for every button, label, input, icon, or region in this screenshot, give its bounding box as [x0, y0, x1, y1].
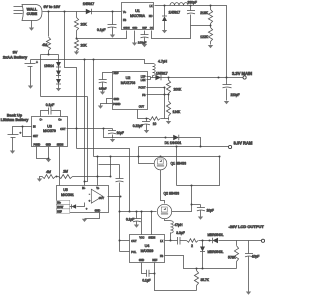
- node q2-cap: [191, 204, 193, 206]
- node 2M-157: [110, 176, 112, 178]
- svg-text:MAX931: MAX931: [61, 193, 74, 197]
- wire U4 OUT stub: [120, 240, 130, 242]
- svg-text:PGND: PGND: [33, 145, 40, 147]
- op-amp U5 MAX931 box: [57, 186, 109, 213]
- capacitor 0.1uF U4: [126, 212, 141, 228]
- svg-text:1N5817: 1N5817: [156, 71, 168, 75]
- node rail-4M: [48, 11, 50, 13]
- capacitor 10uF sub: [108, 129, 124, 143]
- svg-text:IN: IN: [33, 126, 36, 129]
- battery lithium: [8, 127, 32, 154]
- label backup battery: [1, 113, 30, 122]
- node shdn-u4: [151, 211, 153, 213]
- svg-text:MBR0540L: MBR0540L: [208, 233, 224, 237]
- svg-text:C-: C-: [40, 119, 43, 122]
- diode MBR0540L series: [208, 233, 224, 243]
- node 20K tap: [76, 38, 78, 40]
- node main-200K: [168, 77, 170, 79]
- diode 1N5817 input: [83, 2, 95, 14]
- node out-d2: [202, 240, 204, 242]
- node q2-drain-mid: [191, 185, 193, 187]
- svg-text:OUT: OUT: [99, 197, 105, 200]
- svg-text:FB: FB: [142, 94, 146, 97]
- label battery: [3, 50, 28, 60]
- node batt-d: [93, 59, 95, 61]
- node vcc-row: [119, 211, 121, 213]
- wire batt drop B: [84, 60, 86, 186]
- resistor 4M lower: [37, 170, 56, 182]
- svg-text:HYST: HYST: [57, 207, 64, 209]
- node u4out: [119, 240, 121, 242]
- svg-text:REF: REF: [142, 28, 147, 30]
- wire U2 OUT comp row: [138, 110, 172, 127]
- wire ram-gate link: [139, 147, 155, 164]
- inductor buck: [170, 3, 188, 6]
- svg-text:POL: POL: [131, 251, 137, 254]
- svg-text:2: 2: [191, 244, 193, 248]
- wire ff row: [191, 25, 211, 27]
- svg-text:OUT: OUT: [131, 240, 137, 243]
- svg-text:3.3V MAIN: 3.3V MAIN: [232, 71, 252, 76]
- svg-text:LX: LX: [149, 5, 152, 8]
- svg-text:10: 10: [153, 122, 157, 126]
- wire U4 POL stub: [120, 251, 130, 253]
- wire U3 SHDN drop: [59, 147, 61, 186]
- capacitor 0.22uF: [133, 118, 150, 134]
- op-amp U2 MAX1703 box: [113, 72, 148, 110]
- svg-text:4.7µH: 4.7µH: [158, 59, 168, 63]
- capacitor 0.1uF U3: [41, 103, 61, 117]
- wire batt drop D: [93, 60, 95, 157]
- svg-text:REF: REF: [114, 72, 119, 75]
- svg-text:GND: GND: [46, 145, 51, 147]
- svg-text:MAX629: MAX629: [141, 249, 154, 253]
- diode MBR0540L shunt: [200, 241, 224, 269]
- capacitor 0.1uF U4ref: [142, 263, 155, 283]
- op-amp U1 MAX758A box: [122, 3, 154, 30]
- capacitor 220uF: [223, 78, 240, 105]
- wall cube plug prongs: [14, 7, 24, 14]
- svg-text:WALL: WALL: [27, 7, 38, 11]
- node 157-2M: [110, 156, 112, 158]
- U5 pin rows: [56, 200, 70, 213]
- svg-text:FB: FB: [160, 255, 164, 258]
- op-amp U4 MAX629 box: [130, 235, 165, 263]
- svg-text:OUT: OUT: [60, 128, 66, 131]
- wire cap row: [192, 204, 201, 206]
- svg-text:V+: V+: [123, 11, 127, 14]
- wire U5 V+ riser: [97, 156, 99, 186]
- svg-text:REF: REF: [152, 259, 157, 262]
- wire RAM row: [139, 146, 230, 148]
- terminal 3.3V MAIN: [232, 71, 252, 79]
- wire tap to SHDN: [77, 31, 127, 39]
- svg-text:578K: 578K: [228, 255, 236, 259]
- svg-text:0.1µF: 0.1µF: [126, 218, 134, 222]
- capacitor 3.3uF: [176, 231, 185, 245]
- capacitor 330pF: [187, 5, 195, 26]
- wire LX row out: [165, 240, 178, 242]
- wire q1 drop: [176, 147, 178, 186]
- U3 pin labels: [33, 119, 66, 147]
- transistor Q1 Si9433: [154, 157, 186, 170]
- svg-text:MAX679: MAX679: [43, 129, 56, 133]
- svg-text:Q2 Si9433: Q2 Si9433: [164, 192, 180, 196]
- capacitor 10uF out: [245, 241, 259, 295]
- U2 LXP LXN stubs: [147, 77, 156, 80]
- wire VCC riser: [141, 211, 143, 235]
- svg-text:330pF: 330pF: [188, 1, 197, 5]
- svg-text:1N914: 1N914: [44, 64, 54, 68]
- svg-text:FB: FB: [123, 19, 127, 22]
- svg-text:-26V LCD OUTPUT: -26V LCD OUTPUT: [229, 224, 265, 229]
- wire battery rail: [31, 60, 153, 64]
- U2 pin labels: [113, 72, 146, 108]
- U1 pin labels: [123, 5, 153, 30]
- resistor 124K: [166, 95, 181, 119]
- svg-text:+: +: [20, 131, 22, 135]
- svg-text:10µF: 10µF: [117, 131, 124, 135]
- svg-text:U4: U4: [145, 244, 150, 248]
- svg-text:218K: 218K: [200, 11, 209, 15]
- wire q2 source: [165, 219, 171, 221]
- svg-text:2xAA Battery: 2xAA Battery: [3, 54, 28, 59]
- wire U5OUT drop: [119, 197, 121, 252]
- svg-text:10µF: 10µF: [252, 255, 259, 259]
- U4 pin labels: [131, 237, 163, 263]
- wire out rail: [219, 240, 263, 242]
- resistor 2M: [56, 169, 111, 178]
- U3 gnd wires: [37, 147, 52, 163]
- inductor 47uH: [171, 221, 184, 241]
- svg-text:POUT: POUT: [139, 86, 146, 89]
- svg-text:NC: NC: [149, 15, 153, 18]
- wire vin drop: [65, 12, 77, 149]
- node rail-cap: [112, 11, 114, 13]
- svg-text:122K: 122K: [200, 35, 209, 39]
- wire LX row: [155, 6, 227, 78]
- node rail-vin-drop: [64, 11, 66, 13]
- capacitor comp U5: [116, 165, 124, 197]
- node 4M-2M: [56, 176, 58, 178]
- svg-text:SHDN: SHDN: [123, 28, 130, 30]
- resistor 122K: [200, 26, 213, 49]
- op-amp U3 MAX679 box: [32, 117, 68, 147]
- resistor 20K lower: [74, 39, 88, 55]
- svg-text:1N5817: 1N5817: [169, 11, 181, 15]
- U5 internal diode: [70, 203, 88, 211]
- svg-text:0.22µF: 0.22µF: [133, 124, 143, 128]
- svg-text:REF: REF: [57, 211, 62, 213]
- wire row165: [99, 164, 120, 166]
- svg-text:CC: CC: [150, 28, 154, 30]
- wire U2 POUT: [147, 87, 166, 119]
- svg-text:1N5817: 1N5817: [83, 2, 95, 6]
- svg-text:IN-: IN-: [82, 188, 85, 190]
- svg-text:35.7K: 35.7K: [201, 278, 210, 282]
- svg-text:20K: 20K: [81, 44, 88, 48]
- svg-text:47µH: 47µH: [175, 223, 184, 227]
- svg-text:124K: 124K: [173, 110, 182, 114]
- resistor 2ohm: [187, 239, 199, 248]
- svg-text:MAX758A: MAX758A: [130, 14, 146, 18]
- diode 1N5817 catch: [162, 6, 180, 34]
- node outrow-d1: [103, 128, 105, 130]
- node 157-q1: [160, 156, 162, 158]
- svg-text:PGND: PGND: [113, 103, 120, 106]
- battery 2xAA: [25, 60, 39, 89]
- node 157-right: [219, 156, 221, 158]
- wire 2M-157 riser: [110, 157, 112, 177]
- svg-text:SHDN: SHDN: [57, 145, 64, 147]
- svg-text:C+: C+: [58, 119, 62, 122]
- svg-text:0.1µF: 0.1µF: [142, 278, 150, 282]
- wire q1-q2: [161, 170, 165, 204]
- wall cube ground: [29, 21, 34, 31]
- resistor 4M top: [42, 12, 50, 55]
- wire U3 OUT row: [67, 128, 113, 130]
- resistor 578K: [228, 241, 239, 269]
- node ram-176: [176, 146, 178, 148]
- resistor 218K: [200, 5, 212, 26]
- resistor 35.7K: [194, 269, 209, 291]
- label 6V to 16V: [44, 5, 61, 9]
- wire cap-res: [180, 240, 187, 242]
- U1 GND wire: [132, 31, 137, 46]
- svg-text:U5: U5: [63, 188, 68, 192]
- node 157-gate: [138, 156, 140, 158]
- svg-text:D1 1N4001: D1 1N4001: [165, 141, 182, 145]
- svg-text:U3: U3: [47, 124, 52, 128]
- wire U5 OUT: [99, 196, 122, 200]
- svg-text:200K: 200K: [174, 88, 183, 92]
- U1 CC wire: [152, 26, 191, 39]
- node ref-node: [154, 273, 156, 275]
- wire SHDN riser: [151, 212, 153, 235]
- svg-text:LX: LX: [160, 240, 163, 243]
- capacitor 0.1uF input: [97, 12, 117, 38]
- svg-text:U1: U1: [135, 9, 140, 13]
- capacitor 100pF REF: [138, 31, 149, 48]
- wire 3.3V MAIN rail: [161, 77, 245, 79]
- wire fb return: [155, 274, 197, 291]
- wire fb row: [165, 256, 237, 269]
- svg-text:3.3V RAM: 3.3V RAM: [234, 140, 253, 145]
- wire row157: [94, 156, 220, 158]
- svg-text:Back Up: Back Up: [7, 113, 23, 117]
- svg-text:LXN: LXN: [141, 79, 146, 82]
- inductor 4.7uH: [153, 59, 168, 77]
- resistor 200K: [166, 78, 182, 95]
- svg-text:+: +: [36, 61, 38, 65]
- svg-text:GND: GND: [132, 28, 137, 30]
- wire q2 drain: [172, 186, 192, 212]
- svg-text:SET: SET: [33, 135, 38, 138]
- wire right drop: [177, 157, 220, 186]
- svg-text:CUBE: CUBE: [27, 12, 38, 16]
- svg-text:U2: U2: [126, 76, 131, 80]
- node fb-35K: [196, 268, 198, 270]
- svg-text:GND: GND: [139, 259, 145, 262]
- transistor Q2 Si9433: [157, 192, 179, 219]
- wire 1N914 top: [41, 54, 59, 56]
- svg-text:220µF: 220µF: [231, 93, 240, 97]
- node lx-ind: [170, 240, 172, 242]
- capacitor 10uF q2: [197, 205, 214, 220]
- node 4M-1N914: [48, 54, 50, 56]
- wire U2 FB: [147, 94, 170, 96]
- diode D1 1N4001: [165, 135, 201, 147]
- svg-text:6V to 16V: 6V to 16V: [44, 5, 61, 9]
- node divider: [210, 25, 212, 27]
- wire gate row: [120, 211, 157, 213]
- node vin-outrow: [76, 128, 78, 130]
- svg-text:100pF: 100pF: [138, 41, 147, 45]
- wire D1 row: [104, 129, 174, 139]
- U5 top pin labels: [82, 188, 100, 190]
- svg-text:0.1µF: 0.1µF: [46, 103, 55, 107]
- wall cube: [22, 5, 42, 21]
- svg-text:SHDN: SHDN: [148, 237, 155, 240]
- U2 gnd wires: [98, 99, 113, 109]
- wire U4 REF: [154, 263, 156, 274]
- U5 GND: [82, 210, 101, 222]
- svg-text:0.1µF: 0.1µF: [97, 28, 106, 32]
- wire 1N914 bottom: [41, 96, 88, 98]
- svg-text:GND: GND: [95, 210, 101, 213]
- capacitor 0.33uF U2ref: [99, 73, 113, 95]
- node LX diode: [164, 5, 166, 7]
- svg-text:GND: GND: [114, 98, 120, 101]
- node out-d2b: [209, 240, 211, 242]
- svg-text:4M: 4M: [42, 43, 47, 47]
- svg-text:Q1 Si9433: Q1 Si9433: [171, 162, 187, 166]
- node fb-d2: [202, 268, 204, 270]
- svg-text:2M: 2M: [62, 169, 68, 173]
- wire U3 SET: [22, 126, 32, 137]
- node ram-q1: [200, 146, 202, 148]
- node main-U1fb: [226, 77, 228, 79]
- svg-text:MAX1703: MAX1703: [121, 81, 136, 85]
- node batt-b: [84, 59, 86, 61]
- node main-220uF: [218, 77, 220, 79]
- wire input rail: [43, 11, 122, 13]
- resistor 20K upper: [74, 12, 87, 39]
- svg-text:0.33µF: 0.33µF: [99, 87, 107, 90]
- diode 1N5817 boost: [155, 71, 167, 80]
- node cap01-u4: [136, 211, 138, 213]
- wire res-diode: [199, 240, 213, 242]
- svg-text:OUT: OUT: [139, 106, 145, 109]
- diode chain 1N914: [44, 55, 61, 92]
- label 330pF: [188, 1, 197, 5]
- wire 1N914 drop C: [84, 97, 88, 183]
- svg-text:20K: 20K: [81, 23, 88, 27]
- svg-text:10µF: 10µF: [207, 208, 214, 212]
- svg-text:VCC: VCC: [139, 237, 144, 240]
- svg-text:3.3µF: 3.3µF: [176, 231, 185, 235]
- svg-text:MBR0540L: MBR0540L: [208, 250, 224, 254]
- wire gamma row149: [77, 149, 131, 213]
- svg-text:-: -: [89, 192, 90, 196]
- terminal 3.3V RAM: [229, 140, 253, 148]
- svg-text:4M: 4M: [46, 170, 51, 174]
- wire 1N914 left: [40, 55, 42, 97]
- comparator triangle U5: [89, 189, 103, 203]
- terminal -26V: [229, 224, 265, 243]
- svg-text:Lithium Battery: Lithium Battery: [1, 118, 30, 122]
